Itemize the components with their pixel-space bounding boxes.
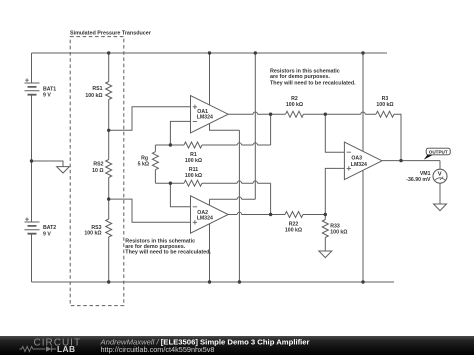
resistor R33 <box>322 215 328 252</box>
wire OA2 V+ pin to rail <box>210 53 256 205</box>
wire OA1 V+ pin to rail <box>209 53 211 105</box>
resistor R22 <box>285 212 303 218</box>
wire ground branch from mid rail <box>32 161 64 167</box>
battery BAT2 <box>25 217 40 233</box>
label BAT2 9V <box>43 225 56 238</box>
svg-text:100 kΩ: 100 kΩ <box>84 231 101 237</box>
svg-text:9 V: 9 V <box>43 93 51 99</box>
wire OA2 output row <box>228 214 285 216</box>
wire OA1 V- pin to bottom rail <box>210 124 240 283</box>
resistor R3 (feedback OA3) <box>376 111 394 117</box>
battery BAT1 <box>25 78 40 94</box>
wire top +9V rail <box>32 52 388 54</box>
label R1 100k <box>185 152 202 164</box>
wire node to OA3 + input <box>325 168 344 214</box>
label RS3 100k <box>84 225 101 237</box>
svg-text:http://circuitlab.com/ct4k559n: http://circuitlab.com/ct4k559nhx5v8 <box>101 345 215 354</box>
wire R3 down to output <box>394 114 401 160</box>
svg-text:100 kΩ: 100 kΩ <box>85 93 102 99</box>
svg-text:100 kΩ: 100 kΩ <box>376 102 393 108</box>
svg-text:BAT2: BAT2 <box>43 225 56 231</box>
svg-text:-36.90 mV: -36.90 mV <box>406 177 431 183</box>
label R33 100k <box>330 224 347 236</box>
label R11 100k <box>185 167 202 179</box>
svg-text:100 kΩ: 100 kΩ <box>185 173 202 179</box>
note bottom left <box>125 238 211 255</box>
svg-text:V: V <box>438 172 442 178</box>
note top right <box>270 68 356 86</box>
label VM1 value <box>406 171 431 183</box>
label R22 100k <box>285 222 302 234</box>
label RS2 10ohm <box>92 161 103 174</box>
resistor RS2 <box>106 130 112 199</box>
CircuitLab logo <box>19 338 81 354</box>
svg-text:5 kΩ: 5 kΩ <box>138 161 149 167</box>
ground (VM1) <box>434 204 447 211</box>
label OA2 LM324 <box>197 210 213 222</box>
op-amp OA1 <box>191 96 229 133</box>
label Rg 5k <box>138 155 149 167</box>
svg-text:100 kΩ: 100 kΩ <box>285 228 302 234</box>
label OA1 LM324 <box>197 109 213 121</box>
resistor R11 (feedback OA2) <box>155 180 270 186</box>
wire OA2 V- pin to bottom rail <box>209 224 211 282</box>
label R2 100k <box>286 96 303 108</box>
wire node A to OA1 + input <box>109 107 191 131</box>
label OA3 LM324 <box>351 156 367 168</box>
wire bottom -9V rail <box>32 281 395 283</box>
label RS1 100k <box>85 86 102 99</box>
wire OA3 V- pin to bottom rail <box>362 171 364 283</box>
wire R2 to node / R3 <box>304 113 377 115</box>
ground (R33) <box>319 251 332 258</box>
dashed box simulated pressure transducer <box>70 37 124 306</box>
svg-text:9 V: 9 V <box>43 232 51 238</box>
svg-text:They will need to be recalcula: They will need to be recalculated. <box>270 80 356 86</box>
resistor R1 (feedback OA1) <box>155 142 270 148</box>
svg-text:100 kΩ: 100 kΩ <box>185 158 202 164</box>
svg-text:OUTPUT: OUTPUT <box>429 149 448 154</box>
op-amp OA2 <box>191 196 229 233</box>
resistor RS3 <box>106 199 112 282</box>
voltmeter VM1 <box>433 169 447 183</box>
wire left battery column <box>31 53 33 282</box>
svg-text:LM324: LM324 <box>351 162 367 168</box>
svg-text:They will need to be recalcula: They will need to be recalculated. <box>125 250 211 256</box>
svg-text:LM324: LM324 <box>197 115 213 121</box>
op-amp OA3 <box>344 142 382 180</box>
svg-text:R1: R1 <box>190 152 197 158</box>
wire OA1 output row <box>228 113 285 115</box>
ground (mid supply) <box>57 167 70 173</box>
wire OA3 output to voltmeter <box>382 161 440 170</box>
svg-text:OA3: OA3 <box>351 156 362 162</box>
node flag OUTPUT <box>424 148 450 159</box>
resistor RS1 <box>106 53 112 130</box>
wire VM1 to ground <box>439 183 441 204</box>
svg-text:10 Ω: 10 Ω <box>92 168 103 174</box>
svg-text:LM324: LM324 <box>197 215 213 221</box>
label R3 100k <box>376 96 393 108</box>
wire R1 to OA1 output <box>270 114 272 145</box>
wire node B to OA2 + input <box>109 199 191 222</box>
svg-text:100 kΩ: 100 kΩ <box>286 102 303 108</box>
wire R22 to node <box>303 214 325 216</box>
wire R11 to OA2 output <box>270 183 272 214</box>
wire OA3 V+ pin to rail <box>362 53 364 151</box>
wire Rg top to OA1 - input <box>170 121 190 145</box>
resistor R2 <box>286 111 304 117</box>
svg-text:RS2: RS2 <box>93 161 103 167</box>
label BAT1 9V <box>43 87 56 99</box>
wire Rg bottom to OA2 - input <box>170 183 190 207</box>
wire node to OA3 - input <box>325 114 344 152</box>
svg-text:Simulated Pressure Transducer: Simulated Pressure Transducer <box>70 30 152 36</box>
svg-text:100 kΩ: 100 kΩ <box>330 230 347 236</box>
resistor Rg <box>152 145 158 183</box>
svg-text:LAB: LAB <box>57 344 75 354</box>
svg-text:RS1: RS1 <box>92 86 102 92</box>
svg-text:are for demo purposes.: are for demo purposes. <box>270 74 330 80</box>
